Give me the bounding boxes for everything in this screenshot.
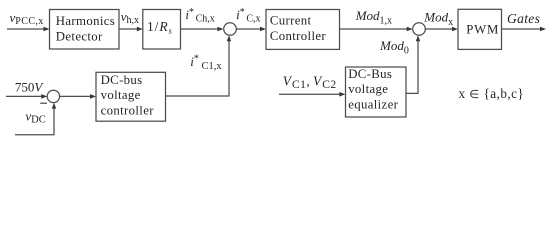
svg-text:750V: 750V [15,80,45,95]
block 1/Rs [143,10,181,50]
svg-text:Detector: Detector [56,29,103,43]
minus sign [40,102,47,104]
block Harmonics Detector [50,10,120,50]
wire Modx [425,27,458,32]
svg-text:equalizer: equalizer [348,98,398,112]
block PWM [458,9,502,49]
wire vh,x [119,27,143,32]
block DC-bus voltage controller [96,72,166,121]
svg-text:Controller: Controller [270,29,326,43]
summing junction S2 [413,23,426,36]
block DC-Bus voltage equalizer [346,67,407,117]
summing junction S1 [224,23,237,36]
block Current Controller [266,10,340,50]
wire input vPCC [7,27,50,32]
wire i*Ch,x [181,27,224,32]
svg-text:PWM: PWM [466,22,499,36]
svg-text:Gates: Gates [507,11,540,26]
wire Gates output [502,27,547,32]
svg-text:Current: Current [270,14,312,28]
wire controller to S1 riser [166,35,232,96]
wire vDC feedback [15,103,56,135]
svg-text:controller: controller [101,103,155,117]
wire equalizer to S2 riser [406,35,420,93]
svg-text:x ∈ {a,b,c}: x ∈ {a,b,c} [459,86,525,101]
svg-text:DC-bus: DC-bus [101,73,143,87]
svg-text:voltage: voltage [101,88,141,102]
wire VC1 VC2 input [279,92,345,97]
svg-text:DC-Bus: DC-Bus [348,67,392,81]
wire S3 to controller [60,94,96,99]
svg-text:voltage: voltage [348,82,388,96]
summing junction S3 [47,90,59,102]
svg-text:Harmonics: Harmonics [56,14,115,28]
wire Mod1,x [340,27,413,32]
wire 750V input [6,94,47,99]
wire i*C,x [236,27,266,32]
